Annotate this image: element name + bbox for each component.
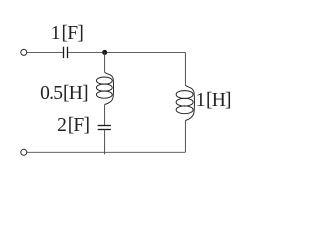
terminal top-left <box>21 49 27 55</box>
inductor L2 1[H] coil <box>176 85 194 121</box>
label C1 value <box>51 24 83 44</box>
label C2 value <box>57 116 89 136</box>
label L1 value <box>40 84 88 104</box>
terminal bottom-left <box>21 149 27 155</box>
node junction dot <box>102 50 107 55</box>
wire: right branch top <box>184 52 186 85</box>
capacitor C1 1[F] plates <box>64 47 68 58</box>
wire: top rail right segment <box>68 51 185 53</box>
wire: bottom rail <box>27 151 186 153</box>
wire: C2 to bottom rail <box>104 130 106 154</box>
wire: node down to L1 <box>104 52 106 72</box>
wire: L1 to C2 <box>104 105 106 125</box>
wire: top rail left segment <box>27 51 63 53</box>
label L2 value <box>196 91 231 111</box>
inductor L1 0.5[H] coil <box>96 72 113 105</box>
capacitor C2 2[F] plates <box>98 126 111 130</box>
wire: right branch bottom <box>184 121 186 153</box>
